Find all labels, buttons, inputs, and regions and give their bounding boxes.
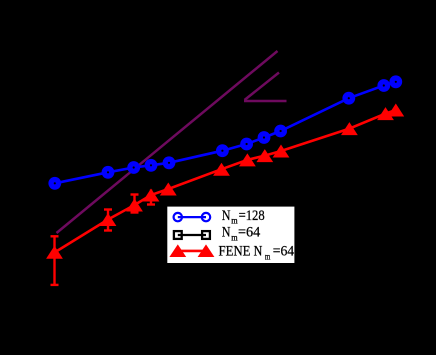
svg-text:=64: =64	[238, 225, 261, 241]
svg-text:=128: =128	[239, 208, 265, 224]
svg-text:N: N	[222, 225, 231, 241]
svg-text:=64: =64	[273, 244, 295, 260]
svg-text:FENE: FENE	[219, 244, 251, 260]
svg-text:m: m	[265, 252, 271, 262]
svg-text:N: N	[222, 208, 231, 224]
svg-text:N: N	[254, 244, 263, 260]
